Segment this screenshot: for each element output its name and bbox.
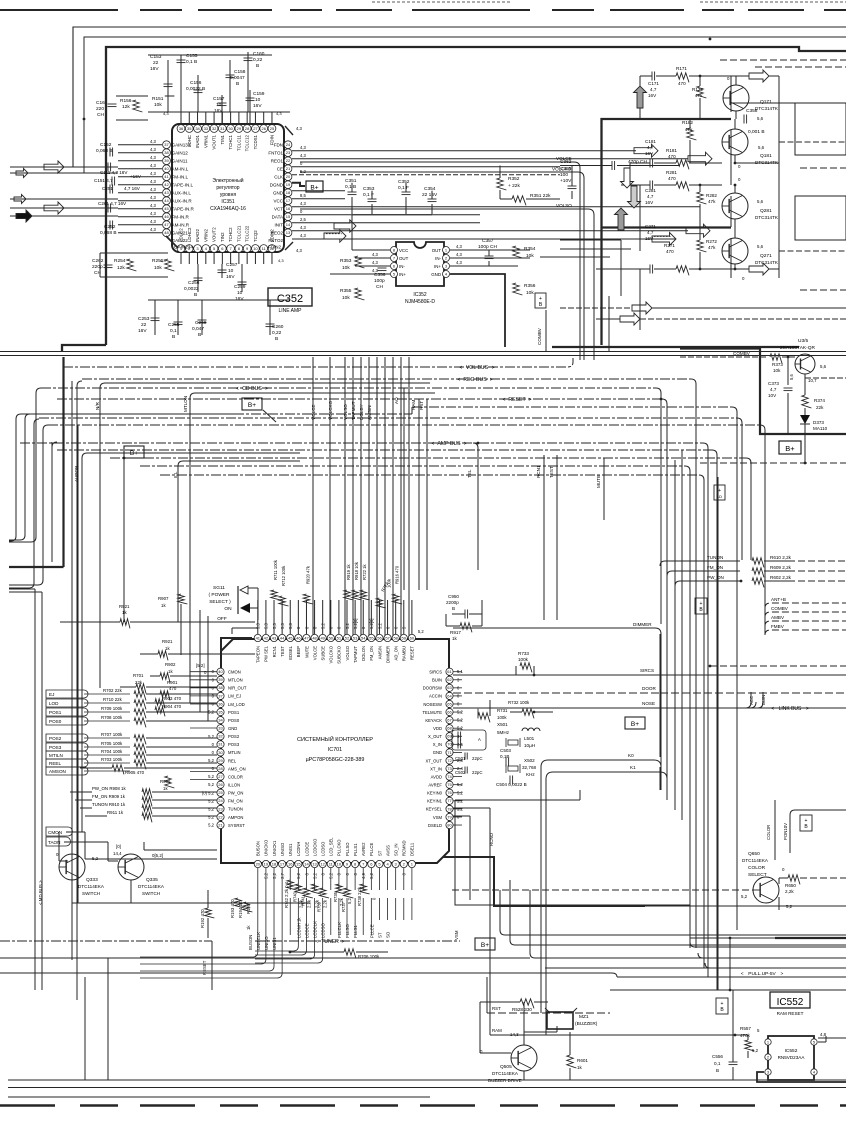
wire SIRCS row <box>453 674 846 676</box>
wire stubs below IC351 <box>180 252 182 264</box>
wire VCT row <box>292 206 700 208</box>
svg-text:>: > <box>490 377 493 383</box>
svg-text:1k: 1k <box>163 786 168 791</box>
resistor R737 <box>344 888 354 898</box>
IC352 right pins <box>443 247 450 254</box>
wire left vertical feeders <box>180 604 182 655</box>
wire left rows mid <box>9 588 35 590</box>
svg-text:IC701: IC701 <box>328 747 342 753</box>
wire bottom heavy dashed <box>0 1104 846 1107</box>
svg-text:R171: R171 <box>676 66 687 71</box>
capacitor C156 <box>197 75 199 112</box>
resistor R528 <box>520 999 534 1009</box>
wire right vertical 765 <box>764 590 766 635</box>
svg-text:B+: B+ <box>481 942 489 949</box>
wire right bundle verticals <box>659 634 661 757</box>
wire CLK row <box>292 174 560 176</box>
capacitor C260 <box>269 300 271 335</box>
svg-text:COMBV: COMBV <box>537 327 542 345</box>
svg-text:10µH: 10µH <box>524 743 535 748</box>
boxed label IC552 <box>770 992 810 1008</box>
svg-text:5,2: 5,2 <box>208 758 214 763</box>
svg-text:TCLC21: TCLC21 <box>236 225 241 242</box>
svg-text:BEEP: BEEP <box>296 646 301 657</box>
svg-text:R733: R733 <box>518 651 529 656</box>
wire row 958 right <box>530 890 846 958</box>
wire bottom line3 <box>8 1096 430 1098</box>
svg-text:TCDS1: TCDS1 <box>253 134 258 149</box>
arrow downward block1 <box>621 168 634 188</box>
svg-text:OFF: OFF <box>217 616 227 622</box>
svg-text:48: 48 <box>312 635 317 640</box>
svg-text:UNICKO: UNICKO <box>264 839 269 856</box>
svg-text:RCN1: RCN1 <box>536 465 541 478</box>
capacitor C151 <box>111 177 113 186</box>
svg-text:RESET: RESET <box>508 397 526 403</box>
svg-text:10: 10 <box>337 861 342 866</box>
wire Q375 out down <box>804 434 806 463</box>
svg-text:R740: R740 <box>292 891 297 902</box>
svg-text:(BUZZER): (BUZZER) <box>575 1021 598 1027</box>
svg-text:12: 12 <box>320 861 325 866</box>
svg-text:C251: C251 <box>102 186 113 191</box>
IC351 top pins <box>177 125 185 133</box>
svg-text:B: B <box>198 332 201 338</box>
wire row 968 right2 <box>705 963 846 968</box>
capacitor C155 <box>180 55 182 112</box>
connector box right 2 <box>795 196 846 240</box>
wire N/R line <box>100 383 430 688</box>
svg-text:52: 52 <box>345 635 350 640</box>
svg-text:R610 2,2k: R610 2,2k <box>770 555 792 560</box>
svg-text:67: 67 <box>447 718 452 723</box>
svg-text:12k: 12k <box>122 104 130 110</box>
svg-text:CMON: CMON <box>48 830 62 835</box>
svg-text:22pC: 22pC <box>472 770 483 775</box>
svg-text:R356: R356 <box>524 283 536 289</box>
svg-text:POS1: POS1 <box>49 710 62 715</box>
svg-text:23: 23 <box>218 806 223 811</box>
svg-text:TCLC22: TCLC22 <box>245 225 250 242</box>
svg-text:51: 51 <box>337 635 342 640</box>
svg-text:UNIS1: UNIS1 <box>288 843 293 856</box>
svg-text:SELECT: SELECT <box>748 872 767 878</box>
svg-text:R181: R181 <box>666 148 677 153</box>
capacitor C358 <box>743 115 745 124</box>
svg-text:R738 2,2k: R738 2,2k <box>357 886 362 906</box>
svg-text:4,7: 4,7 <box>647 145 654 150</box>
svg-text:2200p: 2200p <box>446 600 459 605</box>
svg-text:µPC78P058GC-228-389: µPC78P058GC-228-389 <box>306 757 365 763</box>
svg-text:23: 23 <box>286 150 291 155</box>
svg-text:>: > <box>529 397 532 403</box>
svg-text:XT_IN: XT_IN <box>430 766 442 771</box>
connector input L2 <box>16 169 28 178</box>
capacitor C181 <box>649 159 651 168</box>
svg-text:60: 60 <box>410 635 415 640</box>
svg-text:PLLSO: PLLSO <box>345 923 350 938</box>
svg-text:4,3: 4,3 <box>278 258 284 263</box>
svg-text:B: B <box>172 334 175 340</box>
resistor R182 <box>687 128 697 140</box>
svg-text:5,6: 5,6 <box>789 374 794 380</box>
svg-text:C352: C352 <box>277 293 303 305</box>
svg-text:TCHC1: TCHC1 <box>228 134 233 149</box>
wire VOLCE net <box>300 162 580 360</box>
svg-text:GND: GND <box>433 750 442 755</box>
wire row 948 right <box>690 942 846 947</box>
svg-text:4,3: 4,3 <box>456 260 462 265</box>
svg-text:UNISO: UNISO <box>280 842 285 856</box>
svg-text:COLOR: COLOR <box>228 774 243 779</box>
svg-text:5,2: 5,2 <box>752 1048 759 1053</box>
svg-text:SWITCH: SWITCH <box>142 891 160 896</box>
svg-text:C258: C258 <box>195 320 207 326</box>
arrow FNTO2 hatched <box>652 233 676 246</box>
arrow input L1 <box>44 161 64 173</box>
svg-text:MA110: MA110 <box>813 426 828 431</box>
wire FM_ON row right <box>667 571 740 576</box>
arrow Q271 out <box>749 263 769 275</box>
svg-text:CLK: CLK <box>274 175 283 180</box>
svg-text:LM_LOD: LM_LOD <box>228 702 245 707</box>
svg-text:0,22: 0,22 <box>253 57 263 63</box>
svg-text:18: 18 <box>272 861 277 866</box>
svg-text:R355: R355 <box>340 288 352 294</box>
svg-text:COLOR: COLOR <box>748 865 766 871</box>
capacitor C362 <box>611 161 613 170</box>
wire bus row 450 <box>52 442 57 562</box>
wire ANT+B row <box>765 603 846 608</box>
svg-text:SUBCE: SUBCE <box>320 646 325 661</box>
svg-text:R710 22k: R710 22k <box>103 697 123 702</box>
svg-text:KEYIN1: KEYIN1 <box>427 799 443 804</box>
svg-text:FM-IN.R: FM-IN.R <box>172 215 190 220</box>
resistor R723 <box>376 598 386 608</box>
svg-text:+ 22k: + 22k <box>508 183 520 189</box>
svg-text:28: 28 <box>245 126 250 131</box>
wire MCU bottom right heavy <box>443 857 645 906</box>
svg-text:NOSESW: NOSESW <box>423 702 442 707</box>
svg-text:POS2: POS2 <box>228 734 240 739</box>
svg-text:4,7: 4,7 <box>650 87 657 92</box>
resistor R905 <box>112 765 124 775</box>
svg-text:RST: RST <box>492 1006 501 1011</box>
svg-text:5,2: 5,2 <box>208 814 214 819</box>
svg-text:TCLC11: TCLC11 <box>236 134 241 151</box>
wire VOL BUS <box>63 358 573 367</box>
svg-text:22: 22 <box>286 158 291 163</box>
svg-text:LCDCKO: LCDCKO <box>312 838 317 856</box>
node row3 <box>699 184 702 187</box>
svg-text:Электронный: Электронный <box>212 177 243 184</box>
svg-text:24: 24 <box>286 142 291 147</box>
svg-text:10k: 10k <box>154 265 162 271</box>
svg-text:FM_ON: FM_ON <box>228 799 243 804</box>
wire bus drops to MCU <box>312 357 314 600</box>
svg-text:UNISO: UNISO <box>264 936 269 950</box>
svg-text:PW_ON R908 1k: PW_ON R908 1k <box>92 786 126 791</box>
wire AMP BUS <box>20 442 703 444</box>
wire frame line inner <box>84 37 846 173</box>
wire SG11 to pin41 <box>257 588 259 620</box>
svg-text:AVREF: AVREF <box>428 782 442 787</box>
svg-text:GAIN12: GAIN12 <box>172 151 189 156</box>
node bus dots <box>660 398 663 401</box>
capacitor C111 <box>107 163 109 172</box>
svg-text:TEL: TEL <box>467 469 472 478</box>
svg-text:0,068 B: 0,068 B <box>96 148 113 154</box>
svg-text:54: 54 <box>361 635 366 640</box>
svg-text:C358: C358 <box>746 108 758 114</box>
svg-text:LCDNH: LCDNH <box>296 842 301 856</box>
arrow Q171 out <box>749 70 769 82</box>
svg-text:R919 1k: R919 1k <box>346 563 351 580</box>
svg-text:R182: R182 <box>682 120 693 125</box>
svg-text:Q505: Q505 <box>500 1064 512 1070</box>
svg-text:17: 17 <box>286 198 291 203</box>
svg-text:5,6: 5,6 <box>758 145 765 150</box>
svg-text:MTLON: MTLON <box>183 396 188 412</box>
svg-text:IC552: IC552 <box>777 997 804 1008</box>
svg-text:LCDCE: LCDCE <box>304 842 309 856</box>
svg-text:Q171: Q171 <box>760 99 772 105</box>
capacitor C171 <box>651 72 653 81</box>
wire main box heavy outline <box>106 47 846 345</box>
svg-text:< MD BUS >: < MD BUS > <box>38 880 43 905</box>
svg-text:53: 53 <box>353 635 358 640</box>
IC701 bottom pins <box>254 860 261 867</box>
svg-text:VOLSO: VOLSO <box>556 203 572 208</box>
transistor Q333 <box>59 854 85 880</box>
wire cap bottom rail <box>352 214 432 216</box>
resistor R711 <box>271 590 281 600</box>
svg-text:C253: C253 <box>138 316 150 322</box>
svg-text:43: 43 <box>272 635 277 640</box>
wire K1 row <box>546 772 667 790</box>
svg-text:5,2: 5,2 <box>208 806 214 811</box>
resistor R738 <box>360 884 370 894</box>
wire row 666 right <box>709 665 712 668</box>
svg-text:47: 47 <box>304 635 309 640</box>
svg-text:5,2: 5,2 <box>741 894 748 899</box>
wire LCD group bends <box>255 935 298 951</box>
wire stubs above IC351 <box>180 112 182 124</box>
capacitor C373 <box>787 357 789 385</box>
svg-text:R251: R251 <box>152 258 164 264</box>
svg-text:INAD2: INAD2 <box>195 229 200 242</box>
svg-text:LM_EJ: LM_EJ <box>228 694 241 699</box>
svg-text:16V: 16V <box>235 296 244 302</box>
svg-text:A: A <box>478 737 481 742</box>
svg-text:TIN2: TIN2 <box>220 232 225 242</box>
svg-text:14: 14 <box>304 861 309 866</box>
svg-text:80: 80 <box>447 822 452 827</box>
resistor R156 <box>133 100 143 112</box>
svg-text:LDLC2: LDLC2 <box>179 228 184 242</box>
svg-text:5,6: 5,6 <box>820 364 827 369</box>
svg-text:DSEL1: DSEL1 <box>410 842 415 856</box>
resistor R373 <box>770 354 782 364</box>
svg-text:5,6: 5,6 <box>757 199 764 204</box>
svg-text:0,1B: 0,1B <box>500 754 509 759</box>
buzzer MZ1 <box>547 1012 573 1029</box>
transistor Q375 <box>795 354 815 374</box>
svg-text:2,5: 2,5 <box>300 217 306 222</box>
wire IC352 GND down <box>450 274 505 347</box>
svg-text:TCHC2: TCHC2 <box>228 227 233 242</box>
svg-text:DTC114EKA: DTC114EKA <box>742 858 769 863</box>
svg-text:X_OUT: X_OUT <box>428 734 442 739</box>
svg-text:L501: L501 <box>524 736 535 741</box>
svg-text:COMBV: COMBV <box>771 606 789 611</box>
svg-text:Q271: Q271 <box>760 253 772 259</box>
wire bottom long line2 <box>8 1087 846 1089</box>
svg-text:CXA1946AQ-16: CXA1946AQ-16 <box>210 206 246 212</box>
svg-text:4,3: 4,3 <box>150 155 156 160</box>
boxed label +B right mid <box>714 485 725 500</box>
svg-text:DOOR: DOOR <box>642 686 656 691</box>
svg-text:SIRCS: SIRCS <box>429 670 442 675</box>
svg-text:20: 20 <box>256 861 261 866</box>
svg-text:31: 31 <box>220 126 225 131</box>
svg-text:42: 42 <box>264 635 269 640</box>
svg-text:Q333: Q333 <box>86 877 98 883</box>
svg-text:AMS_ON: AMS_ON <box>228 766 246 771</box>
svg-text:SIRCS: SIRCS <box>640 668 654 673</box>
svg-text:C503: C503 <box>500 748 511 753</box>
boxed label B+ cdbus <box>242 398 262 410</box>
svg-text:100k: 100k <box>497 715 507 720</box>
svg-text:C171: C171 <box>648 81 659 86</box>
svg-text:32: 32 <box>212 126 217 131</box>
svg-text:R193 470: R193 470 <box>230 899 235 918</box>
svg-text:C257: C257 <box>226 262 238 268</box>
wire right pin stubs <box>453 671 462 673</box>
svg-text:COMBV: COMBV <box>733 351 751 356</box>
svg-text:R703 100k: R703 100k <box>101 757 123 762</box>
svg-text:48: 48 <box>164 230 169 235</box>
svg-text:220: 220 <box>96 106 104 112</box>
wire transistor out rail <box>778 76 780 278</box>
svg-text:VOLCKO: VOLCKO <box>552 167 572 172</box>
svg-text:47k: 47k <box>685 127 693 132</box>
svg-text:16V: 16V <box>150 66 159 72</box>
svg-text:VRIN1: VRIN1 <box>203 134 208 147</box>
svg-text:C111 4,7 16V: C111 4,7 16V <box>100 170 128 175</box>
capacitor C153 <box>167 60 169 112</box>
svg-text:5,2: 5,2 <box>418 629 424 634</box>
svg-text:33: 33 <box>218 726 223 731</box>
wire row 958 right2 <box>698 953 846 958</box>
resistor R193 <box>235 898 245 908</box>
svg-text:TAPE-IN.R: TAPE-IN.R <box>172 207 195 212</box>
wire left input rows <box>10 166 118 168</box>
wire Q650 collector <box>778 878 780 884</box>
svg-text:0,1 B: 0,1 B <box>345 184 356 190</box>
svg-text:C151 4,7: C151 4,7 <box>94 178 113 183</box>
svg-text:4,3: 4,3 <box>150 219 156 224</box>
svg-text:0,1 B: 0,1 B <box>186 59 197 65</box>
boxed label +B bottom <box>716 998 728 1014</box>
wire heavy channel separator top <box>602 119 732 345</box>
svg-text:SUBCKO: SUBCKO <box>337 645 342 663</box>
svg-text:47k: 47k <box>695 93 703 98</box>
resistor R354 <box>513 246 523 258</box>
connector input L3 <box>14 195 26 204</box>
boxed label B+ near IC352 <box>535 293 546 308</box>
svg-text:61: 61 <box>447 669 452 674</box>
capacitor C160 <box>247 52 249 112</box>
svg-text:10k: 10k <box>154 102 162 108</box>
svg-text:B: B <box>275 336 278 342</box>
transistor Q505 <box>511 1045 537 1071</box>
svg-text:38: 38 <box>218 685 223 690</box>
svg-text:B: B <box>194 292 197 298</box>
resistor R251 <box>165 259 175 271</box>
wire transistor block left rail <box>639 76 641 119</box>
svg-text:AUX-IN.R: AUX-IN.R <box>172 199 193 204</box>
svg-text:<: < <box>315 939 318 945</box>
resistor R151 <box>165 95 175 97</box>
svg-text:REL: REL <box>228 758 237 763</box>
svg-text:2,2k: 2,2k <box>323 899 328 908</box>
svg-text:AMSIN: AMSIN <box>377 646 382 659</box>
wire Q33x collector joins <box>85 858 217 860</box>
svg-text:DIMMER: DIMMER <box>633 622 652 627</box>
svg-text:4,3: 4,3 <box>300 153 306 158</box>
svg-text:29: 29 <box>237 126 242 131</box>
svg-text:<: < <box>431 441 434 447</box>
svg-text:DIMMER: DIMMER <box>385 646 390 663</box>
svg-text:CMON: CMON <box>228 670 241 675</box>
svg-text:СИСТЕМНЫЙ КОНТРОЛЛЕР: СИСТЕМНЫЙ КОНТРОЛЛЕР <box>297 735 373 743</box>
svg-text:>: > <box>342 939 345 945</box>
svg-text:POS1: POS1 <box>228 710 240 715</box>
capacitor C159 <box>249 90 251 124</box>
svg-text:R172: R172 <box>692 87 703 92</box>
wire GAIN bottom corner <box>166 236 178 248</box>
svg-text:68: 68 <box>447 726 452 731</box>
svg-text:C353: C353 <box>363 186 375 192</box>
svg-text:BUSON: BUSON <box>256 841 261 856</box>
node Q375 base <box>787 356 790 359</box>
svg-text:RST: RST <box>419 401 424 410</box>
svg-text:FDIN: FDIN <box>269 135 274 145</box>
svg-text:RAMBU: RAMBU <box>402 646 407 661</box>
wire top heavy dashed border <box>0 9 846 11</box>
svg-text:R735: R735 <box>333 891 338 902</box>
svg-text:CH: CH <box>97 112 104 118</box>
svg-text:77: 77 <box>447 798 452 803</box>
svg-text:5,6: 5,6 <box>757 244 764 249</box>
wire Q650 base row <box>452 889 753 891</box>
svg-text:22pC: 22pC <box>472 756 483 761</box>
svg-text:VSM: VSM <box>454 930 459 940</box>
svg-text:R650: R650 <box>785 883 796 888</box>
svg-text:IC352: IC352 <box>413 292 427 298</box>
svg-text:4,3: 4,3 <box>456 244 462 249</box>
svg-text:100p CH: 100p CH <box>478 244 497 250</box>
svg-text:INAD1: INAD1 <box>195 134 200 147</box>
svg-text:R741: R741 <box>300 895 305 906</box>
wire FMBV row <box>765 630 846 635</box>
svg-text:OUT: OUT <box>399 256 409 261</box>
svg-text:C16: C16 <box>96 100 105 106</box>
svg-text:4,3: 4,3 <box>300 233 306 238</box>
svg-text:R902: R902 <box>165 662 176 667</box>
svg-text:AO: AO <box>394 397 399 404</box>
